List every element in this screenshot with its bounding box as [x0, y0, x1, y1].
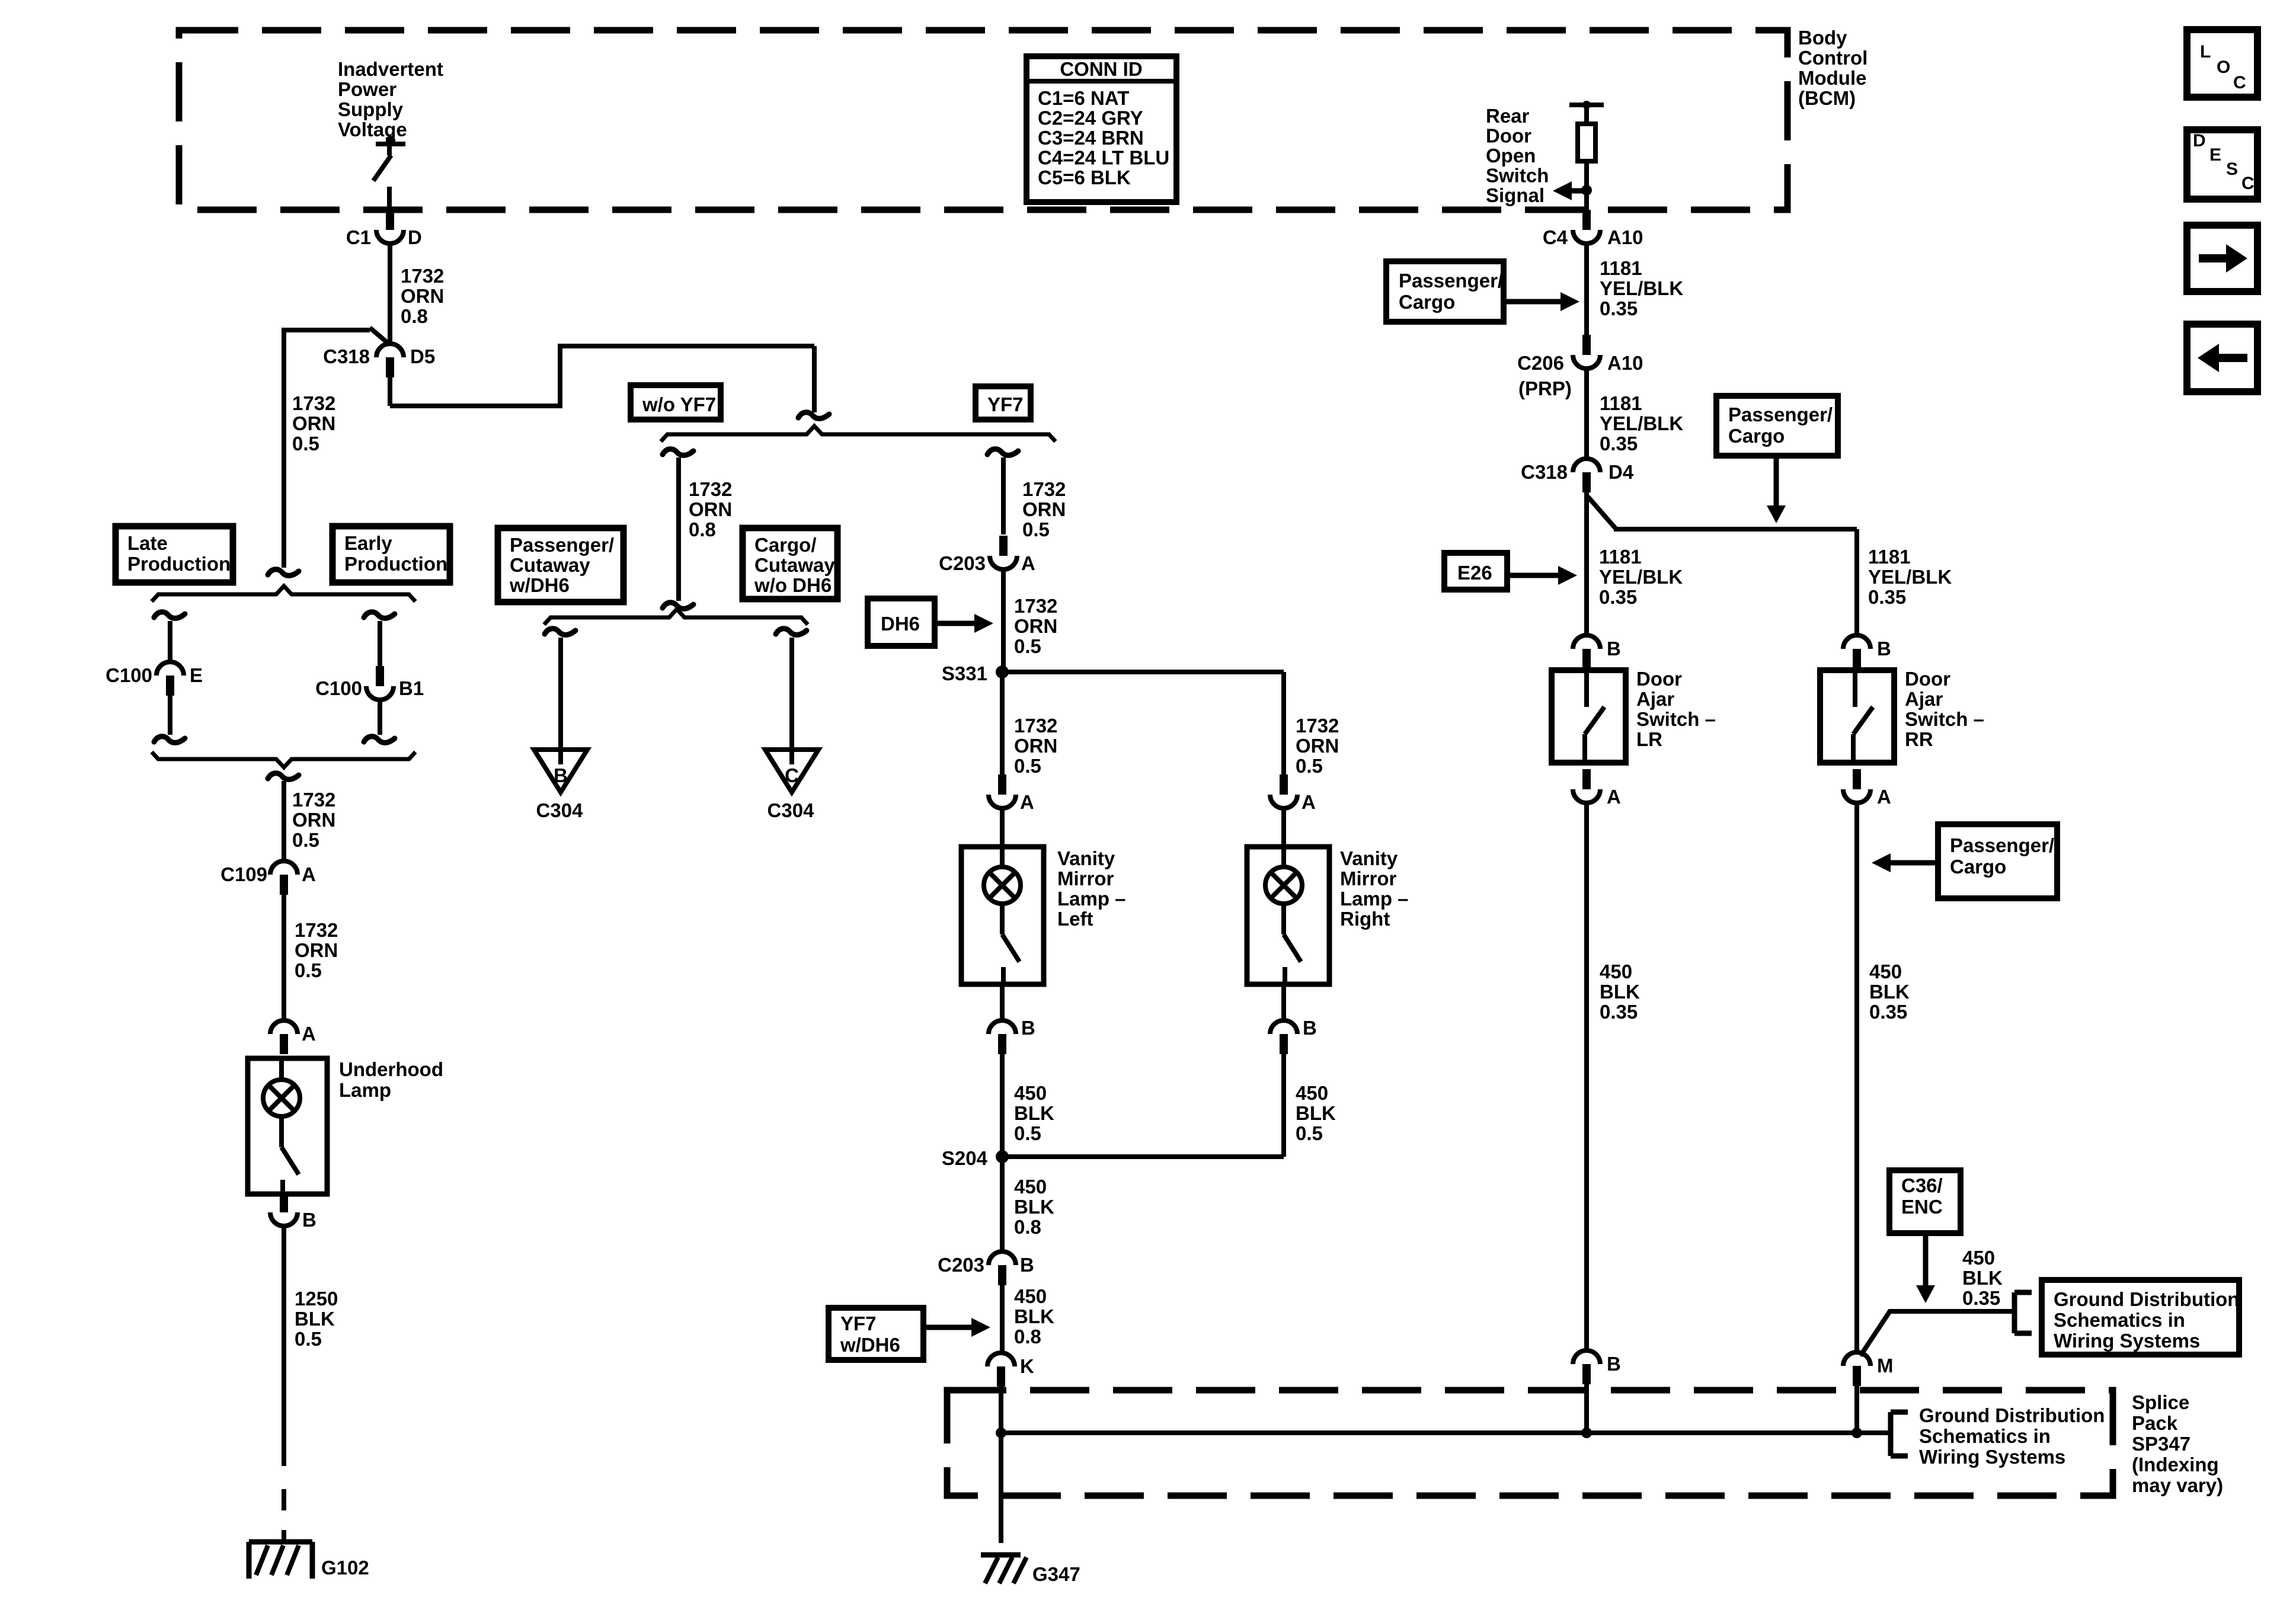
svg-text:C: C — [2241, 174, 2255, 193]
connector vanity right pin B — [1270, 1020, 1297, 1054]
svg-text:Power: Power — [338, 78, 396, 100]
connector C203 pin B — [989, 1251, 1016, 1285]
wire left lamp to B — [1000, 984, 1005, 1020]
svg-text:Switch –: Switch – — [1636, 708, 1716, 730]
wire break B-branch — [545, 629, 575, 635]
svg-text:ORN: ORN — [295, 939, 338, 961]
wire 450 BLK 0.35 RR down — [1854, 804, 1859, 1352]
svg-text:Late: Late — [127, 532, 168, 554]
svg-text:0.5: 0.5 — [292, 433, 319, 454]
connector C100 pin E labels — [105, 664, 203, 686]
wire A to left lamp box — [1000, 809, 1005, 847]
ground G102 — [249, 1542, 312, 1579]
svg-text:S331: S331 — [942, 662, 987, 684]
wire down to C100-E — [168, 621, 172, 661]
wire C203-B to splice pack K — [1000, 1285, 1005, 1352]
svg-text:w/DH6: w/DH6 — [840, 1334, 900, 1356]
svg-text:ORN: ORN — [292, 412, 335, 434]
wire below C100-B1 — [378, 700, 382, 735]
svg-text:A: A — [1877, 786, 1891, 808]
right arrow icon — [2199, 244, 2247, 273]
wire bus to G347 — [999, 1433, 1003, 1543]
wire break C100-E top — [154, 612, 185, 619]
wire 1732 ORN 0.5 to C109 — [282, 781, 286, 860]
svg-text:Cutaway: Cutaway — [754, 554, 835, 576]
svg-text:1732: 1732 — [689, 478, 732, 500]
E26 box — [1444, 553, 1507, 590]
svg-text:A: A — [302, 863, 316, 885]
connector C1 pin D labels — [346, 226, 422, 248]
svg-text:Right: Right — [1340, 908, 1390, 930]
svg-text:S204: S204 — [942, 1147, 988, 1169]
svg-text:w/o DH6: w/o DH6 — [754, 574, 832, 596]
svg-text:(Indexing: (Indexing — [2132, 1454, 2219, 1475]
svg-text:Door: Door — [1636, 668, 1682, 690]
svg-text:0.5: 0.5 — [1296, 755, 1323, 777]
arrow YF7 w/DH6 to wire — [923, 1318, 990, 1337]
terminal bar with dot above resistor — [1569, 101, 1604, 124]
svg-text:w/DH6: w/DH6 — [509, 574, 570, 596]
svg-text:C203: C203 — [938, 1254, 984, 1276]
svg-text:0.35: 0.35 — [1599, 586, 1637, 608]
svg-text:0.8: 0.8 — [689, 518, 716, 540]
svg-text:0.5: 0.5 — [292, 829, 319, 851]
connector C203 pin B labels — [938, 1254, 1034, 1276]
svg-text:B: B — [1607, 1353, 1621, 1375]
svg-text:1732: 1732 — [401, 265, 444, 287]
DH6 box — [868, 598, 935, 646]
prev-page arrow box — [2187, 324, 2257, 392]
svg-text:Schematics in: Schematics in — [2054, 1309, 2185, 1331]
svg-text:C5=6 BLK: C5=6 BLK — [1038, 167, 1131, 188]
svg-text:450: 450 — [1014, 1176, 1047, 1198]
svg-text:YEL/BLK: YEL/BLK — [1599, 566, 1683, 588]
svg-text:LR: LR — [1636, 728, 1662, 750]
svg-text:1732: 1732 — [1014, 715, 1057, 737]
svg-text:BLK: BLK — [1962, 1267, 2003, 1289]
bracket to ground distribution box — [2014, 1292, 2032, 1333]
svg-text:Passenger/: Passenger/ — [510, 534, 614, 556]
svg-text:(PRP): (PRP) — [1518, 377, 1572, 399]
door ajar switch LR box — [1552, 670, 1626, 763]
splice pack dashed box — [947, 1390, 2113, 1496]
svg-text:Cargo/: Cargo/ — [754, 534, 817, 556]
svg-text:Mirror: Mirror — [1340, 868, 1397, 889]
Passenger/Cutaway w/DH6 box — [498, 528, 623, 602]
svg-text:Lamp –: Lamp – — [1057, 888, 1126, 910]
connector C4 pin A10 — [1573, 210, 1600, 244]
wire junction down through BCM edge — [1584, 190, 1589, 211]
wire C203-A to S331 — [1001, 570, 1006, 672]
svg-text:YEL/BLK: YEL/BLK — [1600, 277, 1683, 299]
wire M to bus — [1854, 1386, 1859, 1433]
svg-text:Ground Distribution: Ground Distribution — [2054, 1288, 2239, 1310]
svg-text:B: B — [1877, 638, 1891, 660]
svg-text:1181: 1181 — [1600, 257, 1642, 279]
wire from C318-D5 to YF7 brace — [390, 344, 814, 412]
svg-text:0.5: 0.5 — [295, 959, 322, 981]
svg-text:S: S — [2226, 159, 2238, 179]
resistor (rear door open switch pull-up) — [1578, 124, 1595, 161]
svg-text:C1: C1 — [346, 226, 371, 248]
svg-text:Switch –: Switch – — [1905, 708, 1984, 730]
svg-text:A: A — [1020, 791, 1034, 813]
svg-text:D4: D4 — [1609, 461, 1634, 483]
arrow DH6 to wire — [935, 614, 993, 633]
svg-text:C: C — [785, 764, 799, 786]
connector C318 pin D4 — [1573, 459, 1600, 492]
svg-text:Cargo: Cargo — [1399, 291, 1455, 313]
DESC box — [2187, 130, 2257, 199]
svg-text:Production: Production — [344, 553, 447, 575]
svg-text:K: K — [1020, 1355, 1034, 1377]
DESC letters — [2193, 131, 2255, 193]
connector splice pack pin M — [1843, 1352, 1870, 1386]
wire break C100-B1 top — [364, 612, 395, 619]
YF7 box — [976, 386, 1031, 420]
connector vanity right pin A — [1270, 774, 1297, 808]
off-page triangle B — [534, 750, 587, 792]
Late Production box — [116, 526, 233, 582]
svg-text:0.35: 0.35 — [1600, 1001, 1638, 1023]
junction dot rear door signal — [1581, 185, 1592, 196]
svg-text:Vanity: Vanity — [1057, 847, 1115, 869]
wire break above cutaway brace — [663, 603, 693, 609]
svg-text:Schematics in: Schematics in — [1919, 1425, 2051, 1447]
svg-text:0.8: 0.8 — [1014, 1216, 1041, 1238]
svg-text:(BCM): (BCM) — [1798, 87, 1856, 109]
wire break C100-E bottom — [154, 737, 185, 743]
svg-text:C3=24 BRN: C3=24 BRN — [1038, 127, 1144, 149]
svg-text:C100: C100 — [315, 677, 362, 699]
svg-text:Door: Door — [1905, 668, 1950, 690]
svg-text:RR: RR — [1905, 728, 1933, 750]
svg-text:YEL/BLK: YEL/BLK — [1600, 412, 1683, 434]
connector C109 pin A labels — [220, 863, 316, 885]
svg-text:ORN: ORN — [689, 498, 732, 520]
connector C206 pin A10 — [1573, 335, 1600, 369]
svg-text:Lamp –: Lamp – — [1340, 888, 1409, 910]
wire A to right lamp box — [1281, 809, 1286, 847]
svg-text:1732: 1732 — [1296, 715, 1339, 737]
LOC letters — [2200, 42, 2246, 92]
svg-text:Cutaway: Cutaway — [510, 554, 590, 576]
svg-text:Door: Door — [1486, 125, 1531, 147]
wire C206 to C318-D4 — [1584, 369, 1589, 459]
wire break above production brace — [268, 569, 299, 576]
svg-text:B: B — [302, 1209, 316, 1231]
svg-text:ORN: ORN — [1014, 735, 1057, 757]
svg-text:E: E — [2209, 145, 2221, 165]
svg-text:Wiring Systems: Wiring Systems — [1919, 1446, 2065, 1468]
wire to B triangle — [558, 638, 563, 764]
svg-text:1250: 1250 — [295, 1288, 338, 1310]
connector splice pack pin B — [1573, 1350, 1600, 1384]
wire K to ground bus — [999, 1387, 1003, 1433]
wire 1250 BLK 0.5 below lamp — [282, 1227, 286, 1466]
connector C100 pin B1 — [366, 666, 394, 700]
svg-text:A10: A10 — [1607, 226, 1643, 248]
svg-text:Mirror: Mirror — [1057, 868, 1114, 889]
svg-text:YF7: YF7 — [987, 393, 1024, 415]
svg-text:B: B — [1021, 1017, 1035, 1039]
switch inside BCM (inadvertent power supply) — [373, 136, 405, 211]
svg-text:0.8: 0.8 — [1014, 1326, 1041, 1347]
svg-text:Lamp: Lamp — [339, 1079, 391, 1101]
svg-text:0.35: 0.35 — [1962, 1287, 2000, 1309]
connector C203 pin A — [990, 536, 1017, 569]
wire w/o-YF7 branch (1732 ORN 0.8) — [676, 457, 681, 601]
svg-text:C4: C4 — [1543, 226, 1568, 248]
wire break above YF7 brace — [798, 412, 829, 419]
svg-text:D: D — [2193, 131, 2206, 151]
svg-text:A: A — [302, 1023, 316, 1045]
svg-text:450: 450 — [1869, 961, 1902, 982]
Early Production box — [332, 526, 450, 582]
svg-text:Wiring Systems: Wiring Systems — [2054, 1330, 2200, 1352]
svg-text:BLK: BLK — [1600, 981, 1640, 1003]
svg-text:CONN ID: CONN ID — [1060, 58, 1142, 80]
wire C36/ENC branch to bracket — [1860, 1310, 2014, 1356]
svg-text:B1: B1 — [399, 677, 424, 699]
svg-text:DH6: DH6 — [881, 613, 920, 635]
connector door ajar LR pin B — [1573, 635, 1600, 669]
svg-text:1181: 1181 — [1599, 546, 1642, 568]
junction dot B bus — [1581, 1427, 1592, 1438]
svg-text:A: A — [1607, 786, 1621, 808]
w/o YF7 box — [631, 385, 721, 420]
connector C318 pin D5 labels — [323, 345, 435, 367]
svg-text:BLK: BLK — [295, 1308, 335, 1330]
LOC box — [2187, 30, 2257, 97]
Passenger/Cargo box (RR drop) — [1716, 396, 1838, 456]
connector C318 pin D4 labels — [1521, 461, 1634, 483]
svg-text:M: M — [1877, 1355, 1894, 1377]
svg-text:0.5: 0.5 — [1014, 635, 1041, 657]
connector C203 pin A labels — [939, 552, 1035, 574]
svg-text:Open: Open — [1486, 145, 1536, 167]
wire down to C100-B1 — [378, 621, 382, 666]
splice pack ground bus — [1001, 1430, 1891, 1435]
connector underhood lamp pin B — [270, 1192, 298, 1226]
svg-text:B: B — [1303, 1017, 1317, 1039]
svg-text:BLK: BLK — [1014, 1305, 1054, 1327]
svg-text:C318: C318 — [323, 345, 370, 367]
svg-text:450: 450 — [1014, 1082, 1047, 1104]
svg-text:YF7: YF7 — [840, 1313, 877, 1334]
svg-text:1732: 1732 — [295, 919, 338, 941]
arrow C36/ENC down — [1916, 1233, 1935, 1303]
svg-text:C304: C304 — [768, 799, 815, 821]
ground G347 — [981, 1555, 1027, 1583]
wire 450 BLK 0.5 right to S204 — [1002, 1054, 1284, 1157]
connector underhood lamp pin A — [270, 1020, 298, 1054]
C36/ENC box — [1889, 1170, 1961, 1233]
wire break C-branch — [776, 629, 807, 635]
connector vanity left pin A — [989, 774, 1016, 808]
svg-text:B: B — [554, 764, 568, 786]
svg-text:C100: C100 — [105, 664, 152, 686]
next-page arrow box — [2187, 225, 2257, 292]
svg-text:1732: 1732 — [1014, 595, 1057, 617]
svg-text:C36/: C36/ — [1901, 1174, 1943, 1196]
svg-text:1732: 1732 — [292, 392, 335, 414]
svg-text:BLK: BLK — [1869, 981, 1910, 1003]
svg-text:ORN: ORN — [1296, 735, 1339, 757]
CONN ID header separator — [1027, 79, 1176, 84]
svg-text:Ajar: Ajar — [1905, 688, 1943, 710]
svg-text:C206: C206 — [1517, 352, 1564, 374]
connector C318 pin D5 — [376, 344, 404, 377]
svg-text:B: B — [1607, 638, 1621, 660]
svg-text:C4=24 LT BLU: C4=24 LT BLU — [1038, 147, 1169, 169]
svg-text:0.5: 0.5 — [1022, 518, 1050, 540]
svg-text:450: 450 — [1014, 1285, 1047, 1307]
connector C4 pin A10 labels — [1543, 226, 1643, 248]
wire YF7 branch to C203-A — [1001, 457, 1006, 534]
svg-text:C: C — [2233, 73, 2246, 92]
junction dot K bus — [996, 1427, 1006, 1438]
connector vanity left pin B — [989, 1020, 1016, 1054]
svg-text:Passenger/: Passenger/ — [1399, 270, 1503, 292]
branch diagonal from C1 wire to left — [284, 328, 390, 345]
arrow Passenger/Cargo to RR wire — [1872, 853, 1938, 872]
svg-text:ORN: ORN — [401, 285, 444, 307]
branch diagonal to RR — [1588, 497, 1857, 635]
connector C206 pin A10 labels — [1517, 352, 1643, 374]
svg-text:may vary): may vary) — [2132, 1474, 2223, 1496]
connector door ajar LR pin A — [1573, 769, 1600, 803]
svg-text:C318: C318 — [1521, 461, 1568, 483]
svg-text:C304: C304 — [536, 799, 584, 821]
wire break C100-B1 bottom — [364, 737, 395, 743]
arrow Passenger/Cargo to wire (C4) — [1504, 292, 1579, 311]
svg-text:Cargo: Cargo — [1728, 425, 1785, 447]
svg-text:SP347: SP347 — [2132, 1433, 2191, 1455]
wire break w/o-YF7 branch top — [663, 449, 693, 456]
svg-text:Module: Module — [1798, 67, 1866, 89]
wire 1732 ORN 0.8 C1-D to C318-D5 — [388, 244, 392, 343]
svg-text:Signal: Signal — [1486, 184, 1544, 206]
wire break below production merge — [268, 773, 299, 780]
svg-text:Underhood: Underhood — [339, 1058, 443, 1080]
svg-text:1181: 1181 — [1868, 546, 1911, 568]
svg-text:C1=6 NAT: C1=6 NAT — [1038, 87, 1129, 109]
svg-text:A: A — [1021, 552, 1035, 574]
svg-text:1181: 1181 — [1600, 392, 1642, 414]
bracket to ground distribution text (splice) — [1891, 1412, 1908, 1456]
wire right lamp to B — [1281, 984, 1286, 1020]
Body Control Module (BCM) dashed outline box — [179, 30, 1787, 210]
svg-text:Inadvertent: Inadvertent — [338, 58, 443, 80]
svg-text:D: D — [408, 226, 422, 248]
wire B to bus — [1584, 1384, 1589, 1433]
svg-text:Switch: Switch — [1486, 165, 1549, 187]
svg-text:0.5: 0.5 — [295, 1328, 322, 1350]
wire S204 to C203-B — [1000, 1157, 1005, 1251]
connector C1 pin D — [376, 210, 404, 244]
svg-text:0.5: 0.5 — [1296, 1122, 1323, 1144]
svg-text:0.8: 0.8 — [401, 305, 428, 327]
svg-text:O: O — [2217, 57, 2230, 77]
svg-text:Ground Distribution: Ground Distribution — [1919, 1404, 2105, 1426]
svg-text:Passenger/: Passenger/ — [1950, 834, 2054, 856]
brace YF7 split — [661, 426, 1056, 441]
wire below C100-E — [168, 696, 172, 735]
svg-text:Rear: Rear — [1486, 105, 1530, 127]
svg-text:E: E — [190, 664, 203, 686]
svg-text:0.5: 0.5 — [1014, 1122, 1041, 1144]
door ajar switch RR box — [1820, 670, 1894, 763]
svg-text:450: 450 — [1296, 1082, 1328, 1104]
junction dot M bus — [1851, 1427, 1862, 1438]
connector splice pack pin K — [987, 1353, 1015, 1387]
svg-text:ENC: ENC — [1901, 1196, 1943, 1218]
svg-text:Early: Early — [344, 532, 392, 554]
brace production split — [152, 586, 415, 601]
wire into G102 — [282, 1530, 286, 1543]
svg-text:A10: A10 — [1607, 352, 1643, 374]
splice S204 — [996, 1150, 1009, 1163]
svg-text:C2=24 GRY: C2=24 GRY — [1038, 107, 1143, 129]
off-page triangle C — [765, 750, 818, 792]
left arrow icon — [2198, 344, 2247, 372]
svg-text:Vanity: Vanity — [1340, 847, 1398, 869]
wire C109 to underhood lamp — [282, 895, 286, 1020]
underhood lamp — [248, 1058, 327, 1194]
svg-text:Body: Body — [1798, 27, 1847, 49]
CONN ID table box — [1027, 56, 1176, 202]
wire C4 to C206 — [1584, 244, 1589, 337]
svg-text:YEL/BLK: YEL/BLK — [1868, 566, 1952, 588]
Cargo/Cutaway w/o DH6 box — [743, 528, 837, 599]
connector C100 pin E — [156, 662, 184, 696]
svg-text:ORN: ORN — [292, 809, 335, 831]
svg-text:Production: Production — [127, 553, 231, 575]
wire to C triangle — [789, 638, 794, 764]
connector C100 pin B1 labels — [315, 677, 424, 699]
svg-text:L: L — [2200, 42, 2211, 62]
wire S331 down to left lamp — [1000, 672, 1005, 774]
connector door ajar RR pin A — [1843, 769, 1870, 803]
svg-text:w/o YF7: w/o YF7 — [642, 393, 716, 415]
svg-text:Left: Left — [1057, 908, 1093, 930]
svg-text:C109: C109 — [220, 863, 267, 885]
svg-text:C203: C203 — [939, 552, 986, 574]
arrow Passenger/Cargo down to RR wire — [1767, 456, 1786, 523]
vanity mirror lamp right — [1247, 847, 1329, 984]
svg-text:E26: E26 — [1457, 562, 1492, 584]
svg-text:B: B — [1020, 1254, 1034, 1276]
svg-text:ORN: ORN — [1014, 615, 1057, 637]
splice S331 — [996, 665, 1009, 678]
wire resistor to junction — [1584, 161, 1589, 191]
wire lamp to B connector — [282, 1194, 286, 1209]
vanity mirror lamp left — [961, 847, 1044, 984]
svg-text:ORN: ORN — [1022, 498, 1066, 520]
svg-text:Voltage: Voltage — [338, 119, 407, 140]
svg-text:450: 450 — [1600, 961, 1632, 982]
arrow rear door open switch signal (left) — [1553, 181, 1587, 200]
svg-text:G102: G102 — [321, 1557, 369, 1579]
connector C109 pin A — [270, 861, 298, 895]
svg-text:0.35: 0.35 — [1600, 433, 1638, 454]
wire dash to G102 — [282, 1489, 286, 1510]
brace production merge — [152, 752, 415, 767]
svg-text:Pack: Pack — [2132, 1412, 2178, 1434]
svg-text:Splice: Splice — [2132, 1391, 2189, 1413]
Passenger/Cargo box (C4) — [1386, 261, 1504, 322]
